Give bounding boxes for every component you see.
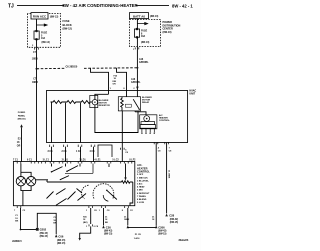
svg-text:(8W-42): (8W-42)	[104, 230, 112, 233]
svg-text:BK: BK	[105, 222, 109, 224]
A/C heater actuator box	[140, 115, 157, 129]
wire relay ground inside control	[125, 164, 127, 178]
wire resistor tap 3	[80, 103, 82, 143]
connector marks on control box top	[17, 162, 132, 164]
svg-text:BLOCK: BLOCK	[63, 23, 72, 27]
splice junction on fuse wire	[36, 68, 38, 70]
svg-text:0 OFF: 0 OFF	[137, 174, 144, 176]
svg-text:9 LOW: 9 LOW	[137, 202, 145, 204]
svg-text:BK: BK	[15, 221, 19, 223]
svg-text:8 BLEND: 8 BLEND	[137, 199, 147, 201]
svg-text:18DB: 18DB	[32, 82, 38, 84]
actuator pins	[142, 128, 154, 133]
svg-text:FUSED: FUSED	[18, 112, 26, 114]
svg-text:F25: F25	[114, 75, 118, 77]
wire from control right to ground rail	[127, 208, 129, 225]
ground run to splice	[21, 229, 37, 231]
svg-text:C26: C26	[106, 225, 111, 229]
header rule right	[136, 5, 169, 7]
svg-text:FUSE: FUSE	[41, 33, 48, 35]
svg-text:(8W-42): (8W-42)	[158, 230, 166, 233]
svg-text:18: 18	[114, 78, 117, 80]
wire from RUN-ACC to fuse 5	[36, 19, 38, 31]
connector mark below fuse block	[35, 48, 39, 50]
illumination lamp 1	[16, 177, 25, 186]
svg-text:(BK): (BK)	[83, 222, 88, 224]
dashed wire to PDC feed	[37, 67, 66, 70]
wire resistor tap 2	[65, 103, 67, 143]
connector triangle C26	[102, 225, 105, 228]
connector mark below PDC	[135, 47, 139, 49]
svg-text:HEATER: HEATER	[159, 116, 168, 119]
wire to triangle C26	[103, 208, 105, 225]
svg-text:J948W-5: J948W-5	[12, 240, 22, 243]
fuse block dashed outline	[28, 14, 61, 48]
arrow up on lamps feed	[20, 124, 23, 127]
svg-text:6 DEFROST: 6 DEFROST	[137, 193, 150, 195]
svg-text:C2: C2	[23, 210, 27, 212]
connector triangle C206	[155, 225, 158, 228]
svg-text:18DB: 18DB	[32, 59, 38, 61]
illumination lamp 2	[26, 177, 35, 186]
rotary contact 4	[56, 199, 67, 206]
svg-text:5: 5	[41, 35, 43, 37]
svg-text:CONTROL: CONTROL	[159, 120, 170, 122]
svg-text:RESISTOR: RESISTOR	[99, 105, 111, 107]
svg-text:BATT A0: BATT A0	[133, 14, 145, 18]
wire bend to lower left	[80, 226, 91, 238]
lamp feed bus	[21, 164, 31, 177]
svg-text:1: 1	[110, 88, 112, 90]
svg-text:18: 18	[152, 219, 155, 221]
in-line connector bracket between boxes	[98, 145, 112, 157]
ground rail	[128, 226, 156, 228]
svg-text:BK: BK	[53, 223, 57, 225]
svg-text:18BK: 18BK	[124, 219, 130, 221]
mode switch wiper left	[77, 189, 87, 201]
svg-text:OR: OR	[17, 145, 21, 147]
connector mark on relay ground wire	[121, 148, 125, 150]
svg-text:(8W-12): (8W-12)	[42, 42, 50, 44]
svg-text:2: 2	[133, 88, 135, 90]
internal stubs from top connectors	[52, 164, 110, 168]
mode switch lower curve	[103, 195, 108, 201]
relay contact	[133, 99, 139, 109]
fuse 8	[134, 29, 139, 37]
svg-text:80a6e1f6: 80a6e1f6	[179, 240, 189, 242]
svg-text:FUSE: FUSE	[141, 31, 148, 33]
mode switch wiper right	[107, 190, 117, 199]
PDC dashed outline	[129, 20, 160, 47]
svg-text:4 HEAT: 4 HEAT	[137, 186, 145, 189]
blower switch wiper 1	[52, 167, 63, 172]
wire HVAC right ground 1	[155, 143, 157, 226]
svg-text:3 C8: 3 C8	[48, 151, 54, 153]
svg-text:DB/: DB/	[113, 81, 117, 83]
svg-text:2 BI-LEVEL: 2 BI-LEVEL	[137, 180, 149, 182]
svg-text:7: 7	[14, 210, 16, 212]
fuse 5	[34, 31, 39, 39]
svg-text:8W - 42 - 1: 8W - 42 - 1	[172, 3, 193, 8]
svg-text:C8: C8	[169, 150, 173, 152]
svg-text:(8W-10): (8W-10)	[141, 42, 149, 44]
svg-text:A/C: A/C	[159, 114, 163, 117]
ground junction	[20, 229, 22, 231]
A/C heater control box	[13, 162, 134, 206]
wire from control to connector C26 left	[90, 208, 92, 224]
svg-text:(8W-12): (8W-12)	[63, 27, 72, 31]
svg-text:5 MIX: 5 MIX	[137, 190, 143, 192]
switch bus wire	[65, 164, 93, 174]
svg-text:C8: C8	[94, 210, 98, 212]
svg-text:(8W-15): (8W-15)	[40, 236, 48, 238]
svg-text:CONTROL: CONTROL	[137, 169, 150, 173]
svg-text:C8: C8	[158, 150, 162, 152]
main internal bus with resistor	[47, 180, 133, 206]
PDC BATT A0 box	[130, 13, 149, 19]
svg-text:18: 18	[83, 219, 86, 221]
svg-text:C8: C8	[125, 152, 129, 154]
svg-text:18: 18	[15, 218, 18, 220]
svg-text:12RD/BL: 12RD/BL	[131, 82, 141, 84]
mode switch arc left fragments	[82, 185, 89, 199]
svg-text:(8W-50): (8W-50)	[18, 119, 26, 121]
svg-text:C06: C06	[58, 235, 63, 239]
svg-text:(8W-15): (8W-15)	[104, 234, 112, 236]
svg-text:8W - 42 AIR CONDITIONING-HEATE: 8W - 42 AIR CONDITIONING-HEATER	[62, 3, 138, 8]
svg-text:40A: 40A	[141, 35, 146, 38]
svg-text:A16: A16	[139, 58, 144, 61]
svg-text:Z1: Z1	[105, 216, 108, 218]
wire A16 down to junction	[136, 47, 138, 91]
svg-text:1: 1	[133, 49, 135, 51]
svg-text:C8: C8	[107, 210, 111, 212]
connector triangle C06	[55, 234, 58, 237]
svg-text:1: 1	[99, 210, 101, 212]
off-page arrow in PDC	[137, 23, 147, 25]
switch contact a	[60, 176, 69, 180]
ground splice square	[36, 228, 39, 231]
blower switch wiper 2	[67, 166, 78, 172]
svg-text:RELAY: RELAY	[142, 101, 150, 104]
blower motor resistor chain	[51, 101, 93, 104]
wire fuse 8 down	[136, 37, 138, 46]
svg-text:(8W-15): (8W-15)	[57, 240, 65, 242]
svg-text:(8W-10): (8W-10)	[163, 31, 172, 34]
svg-text:(8W-15): (8W-15)	[158, 234, 166, 236]
svg-text:12RD/BL: 12RD/BL	[139, 62, 149, 64]
svg-text:5: 5	[125, 149, 127, 151]
wire F31 down	[36, 47, 38, 162]
ground branch up	[37, 213, 56, 234]
svg-text:8: 8	[123, 88, 125, 90]
HVAC unit box	[47, 91, 188, 143]
actuator motor circle	[144, 116, 150, 122]
connector marks under HVAC box	[50, 145, 95, 147]
header rule left	[17, 5, 64, 7]
splice junction on A16 wire	[136, 67, 138, 69]
svg-text:A16: A16	[131, 78, 136, 81]
svg-text:4: 4	[158, 147, 160, 150]
wire branch A from dashed feed to resistor	[91, 68, 109, 94]
actuator body bars	[141, 122, 155, 125]
svg-text:1 MAX A/C: 1 MAX A/C	[137, 176, 148, 179]
ignition switch RUN-ACC box	[31, 13, 48, 19]
svg-text:8: 8	[122, 210, 124, 212]
relay coil	[121, 97, 124, 111]
svg-text:(8W-15): (8W-15)	[40, 233, 48, 235]
svg-text:Z1: Z1	[124, 216, 127, 218]
svg-text:RUN ACC: RUN ACC	[33, 15, 47, 19]
svg-text:UNIT: UNIT	[189, 93, 195, 96]
rotary contact 1	[47, 192, 54, 199]
svg-text:4 C8: 4 C8	[90, 150, 96, 153]
junction at relay output	[137, 111, 139, 113]
wire tap3 to switch	[80, 147, 82, 162]
svg-text:10A: 10A	[41, 37, 46, 40]
wire tap1 to switch	[51, 147, 53, 162]
wire tap4 to switch	[93, 147, 95, 162]
svg-text:18: 18	[105, 219, 108, 221]
wire relay contact to motor	[135, 111, 146, 115]
svg-text:Z1: Z1	[152, 216, 155, 218]
lamp to switch link	[36, 179, 48, 181]
svg-text:X56: X56	[83, 216, 88, 218]
svg-text:1: 1	[86, 210, 88, 212]
svg-text:E2: E2	[18, 139, 22, 141]
wire tap2 to switch	[65, 147, 67, 162]
svg-text:7 PANEL: 7 PANEL	[137, 195, 147, 198]
svg-text:C6 28DG0: C6 28DG0	[66, 65, 78, 68]
svg-text:Z1 C8: Z1 C8	[135, 234, 142, 236]
in-line connector on wire	[89, 224, 92, 226]
small relay tab	[125, 104, 131, 107]
svg-text:(8W-42): (8W-42)	[170, 218, 178, 221]
svg-text:C206: C206	[158, 225, 165, 229]
rotary contact 3	[68, 192, 76, 200]
svg-text:1 A16: 1 A16	[134, 237, 141, 240]
wire resistor tap 1	[51, 102, 53, 143]
wire fuse 5 down	[36, 39, 38, 47]
svg-text:8: 8	[141, 33, 143, 35]
wire thermal limiter out	[95, 105, 138, 133]
svg-text:(8W-10): (8W-10)	[150, 16, 158, 18]
svg-text:PANEL: PANEL	[18, 114, 26, 117]
wire thermal limiter feed	[95, 94, 109, 99]
svg-text:3 A/C: 3 A/C	[137, 183, 143, 186]
svg-text:7: 7	[169, 148, 171, 150]
thermal limiter circle	[92, 100, 97, 105]
ground wire from lamps	[20, 208, 22, 230]
svg-text:TJ: TJ	[8, 4, 14, 10]
lamp ground bus	[21, 186, 31, 206]
svg-text:C28: C28	[169, 214, 174, 218]
wire branch B from dashed feed to relay coil	[117, 68, 127, 97]
thermal limiter case	[90, 95, 98, 107]
off-page arrow at fuse block	[37, 24, 48, 26]
wire HVAC right ground 2	[166, 143, 168, 214]
rotary contact 2	[56, 189, 66, 195]
wire panel lamps feed	[21, 127, 23, 161]
connector triangle C28	[165, 214, 168, 217]
arrow onto resistor bus	[124, 177, 126, 180]
svg-text:(8W-12): (8W-12)	[50, 17, 58, 19]
wire PDC feed into relay	[136, 90, 138, 97]
wire relay coil to ground tap	[121, 111, 123, 143]
svg-text:Z1 18BK: Z1 18BK	[167, 170, 169, 179]
svg-text:C2: C2	[130, 210, 134, 212]
wire BATT to fuse 8	[136, 19, 138, 29]
svg-text:(8W-15): (8W-15)	[170, 222, 178, 224]
svg-text:18: 18	[17, 142, 20, 144]
wire relay coil to control	[121, 143, 123, 162]
svg-text:OR: OR	[113, 84, 117, 86]
connector triangle left on rail	[127, 225, 130, 228]
blower motor relay box	[118, 97, 140, 111]
arrow into HVAC box	[136, 87, 139, 90]
connector bumps at HVAC bottom right	[154, 142, 168, 144]
svg-text:G202: G202	[40, 228, 47, 232]
svg-text:Z1: Z1	[15, 215, 18, 217]
svg-text:0 C8: 0 C8	[94, 226, 99, 228]
svg-text:1: 1	[86, 226, 88, 228]
svg-text:3: 3	[32, 45, 34, 47]
mode switch arc right	[93, 184, 114, 199]
svg-text:FUSE: FUSE	[63, 19, 70, 23]
svg-text:(8W-15): (8W-15)	[57, 243, 65, 245]
svg-text:2 C8: 2 C8	[62, 151, 68, 153]
connector marks under control box	[17, 206, 128, 208]
